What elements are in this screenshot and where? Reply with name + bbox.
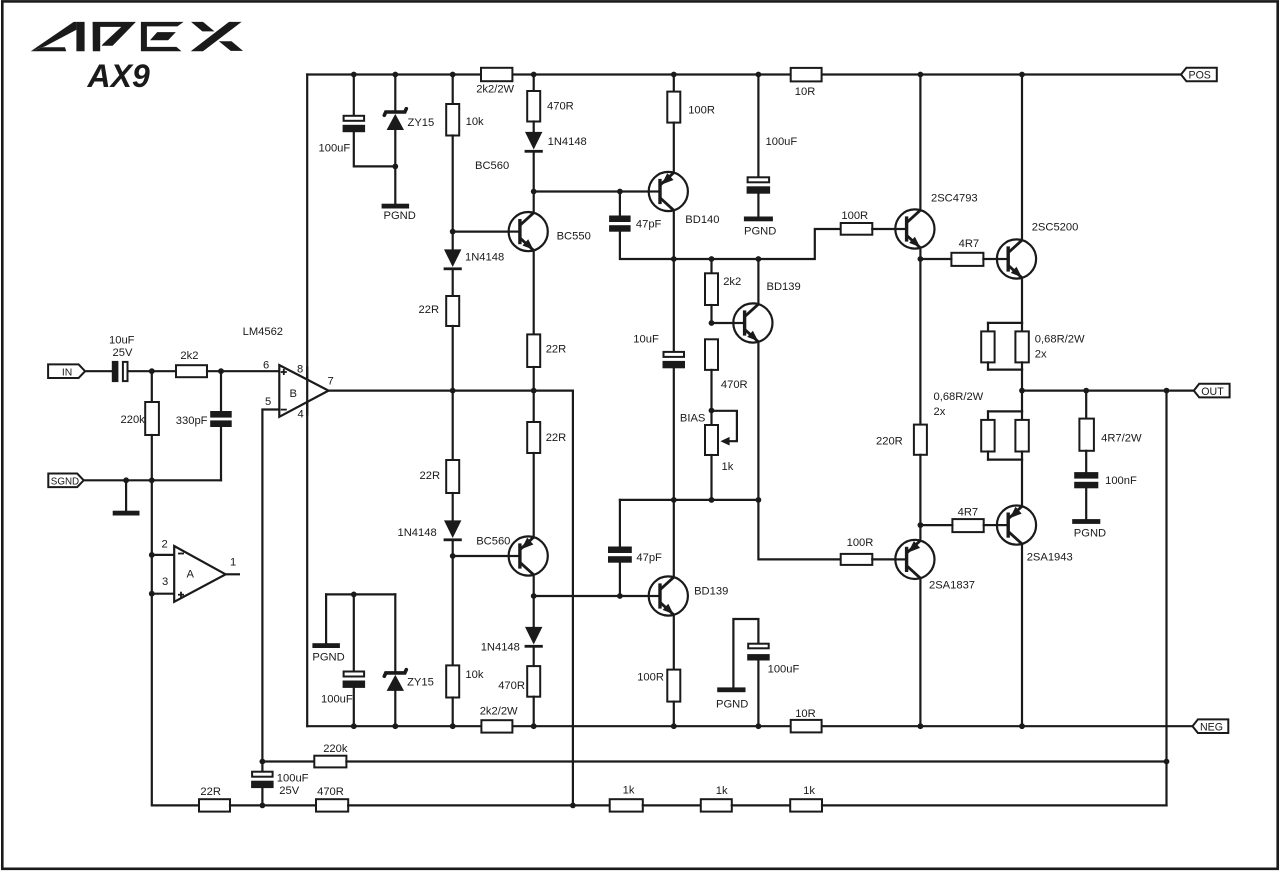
wire 100uF top stem bottom supply <box>353 594 355 670</box>
wire lower emitter resistor top bus <box>988 410 1022 412</box>
resistor 2k2/2W bottom <box>481 720 512 732</box>
junction BD139 emitter at lower row <box>756 497 762 503</box>
wire input column down to feedback row <box>152 480 199 805</box>
svg-text:10uF: 10uF <box>633 334 659 346</box>
wire lower top stub right <box>1021 411 1023 420</box>
wire 47pF lower top stem <box>619 500 621 547</box>
svg-text:BD139: BD139 <box>767 281 801 293</box>
svg-text:PGND: PGND <box>312 651 344 663</box>
resistor 100R upper middle <box>667 92 680 123</box>
wire 470R to NEG rail <box>533 697 535 727</box>
symbol minus op-amp A <box>178 553 184 555</box>
wire 22R to op-amp output row <box>452 326 454 391</box>
diode 1N4148 lower left <box>444 520 462 541</box>
ground PGND top supply <box>382 204 410 209</box>
wire zener anode to PGND <box>394 130 396 204</box>
wire 2SC5200 emitter to emitter resistors <box>1021 278 1023 323</box>
svg-text:2k2: 2k2 <box>180 350 198 362</box>
transistor 2SC5200 output <box>997 239 1036 278</box>
wire 470R to trimmer <box>710 370 712 425</box>
resistor 22R upper left <box>446 296 459 326</box>
wire PGND stem bottom supply <box>325 594 327 643</box>
svg-text:100R: 100R <box>688 104 715 116</box>
wire OUT to 4R7/2W <box>1085 391 1087 419</box>
junction pin5 column at 220k row <box>260 759 266 765</box>
junction 2SA1837 at NEG rail <box>918 723 924 729</box>
wire shunt row a <box>230 804 316 806</box>
connector IN <box>48 364 85 378</box>
transistor BD139 bias upper <box>733 303 772 342</box>
resistor 22R shunt <box>199 799 230 811</box>
wire op-amp B output to drivers and feedback <box>329 391 573 806</box>
svg-text:5: 5 <box>265 396 271 408</box>
svg-text:LM4562: LM4562 <box>243 326 283 338</box>
junction 2SA1837 emitter node <box>918 522 924 528</box>
wire 47pF upper bottom stem and row <box>620 229 841 259</box>
wire BC560 base node to 10k bottom <box>452 556 454 665</box>
svg-text:100uF: 100uF <box>766 136 798 148</box>
wire output row to 22R lower middle <box>533 391 535 422</box>
resistor 220k feedback <box>314 756 346 768</box>
svg-text:4R7/2W: 4R7/2W <box>1101 433 1142 445</box>
svg-text:220k: 220k <box>121 414 146 426</box>
wire op-amp A pin2 lead <box>152 554 174 556</box>
wire BD139 upper emitter down <box>757 342 759 500</box>
resistor 2k2 bias <box>705 273 718 305</box>
svg-text:2SC5200: 2SC5200 <box>1032 222 1079 234</box>
wire upper emitter resistor bottom bus <box>988 369 1022 371</box>
junction op-amp A pin3 tap <box>149 591 155 597</box>
wire NEG rail right segment <box>822 725 1193 727</box>
junction decoupling cap at POS rail <box>756 72 762 78</box>
svg-text:47pF: 47pF <box>636 218 662 230</box>
junction 2k2 at BD139 base <box>709 320 715 326</box>
wire rail to 10k <box>452 75 454 105</box>
symbol plus op-amp B <box>281 369 287 375</box>
wire 100R top stem <box>673 75 675 92</box>
junction BC560 collector node <box>531 593 537 599</box>
wire cap hook to PGND <box>733 619 758 687</box>
wire cap to PGND <box>757 194 759 217</box>
svg-text:100R: 100R <box>847 537 874 549</box>
wire 22R to output row <box>533 367 535 391</box>
wire BD139 upper base row <box>712 322 734 324</box>
capacitor 100nF zobel <box>1074 472 1098 488</box>
capacitor 100uF negative supply <box>343 672 366 688</box>
junction 470R column at NEG rail <box>531 723 537 729</box>
resistor 220R interdriver <box>914 425 927 455</box>
svg-text:PGND: PGND <box>384 210 416 222</box>
capacitor 10uF VAS <box>663 352 686 368</box>
wire 100R to 2SA1837 base <box>872 558 895 560</box>
wire shunt row b <box>348 804 610 806</box>
svg-text:NEG: NEG <box>1200 721 1223 733</box>
wire 2k2 to op-amp pin6 <box>207 370 279 372</box>
resistor 100R lower middle <box>667 670 680 702</box>
junction BD140 base node <box>531 189 537 195</box>
wire diode to BC560 base node <box>452 542 454 556</box>
wire op-amp A pin3 lead <box>152 593 174 595</box>
wire IN to coupling cap <box>85 370 112 372</box>
wire 220k stem top <box>151 371 153 402</box>
wire node to diode lower middle <box>533 596 535 627</box>
resistor 1k series first <box>610 799 643 811</box>
resistor 4R7 upper <box>951 253 983 266</box>
resistor 22R lower middle <box>527 422 540 453</box>
svg-text:100nF: 100nF <box>1105 475 1137 487</box>
junction 2SA1943 at NEG rail <box>1019 723 1025 729</box>
svg-text:22R: 22R <box>546 344 567 356</box>
wire POS rail right segment <box>822 73 1181 75</box>
junction 2SC5200 at POS rail <box>1019 72 1025 78</box>
logo letter P <box>93 22 136 51</box>
svg-text:1N4148: 1N4148 <box>481 641 520 653</box>
wire 2SC4793 collector to rail <box>919 75 921 211</box>
wire emitter node to 4R7 lower <box>920 524 952 526</box>
transistor BC550 input <box>509 212 548 251</box>
junction input node <box>149 368 155 374</box>
resistor 4R7/2W zobel <box>1079 419 1094 451</box>
svg-text:BC550: BC550 <box>557 231 591 243</box>
wire 330pF stem top <box>220 371 222 411</box>
wire 100R to NEG rail <box>673 702 675 727</box>
svg-text:1k: 1k <box>803 785 815 797</box>
wire 10k to BC550 base node and diode <box>452 136 454 250</box>
junction 10k column at NEG rail <box>450 723 456 729</box>
capacitor 100uF positive supply <box>343 116 366 132</box>
capacitor 330pF <box>210 411 232 427</box>
wire lower VAS row <box>620 499 759 501</box>
wire lower row to 2SA1837 base <box>758 500 840 560</box>
wire 10k bottom to NEG rail <box>452 698 454 727</box>
wire shunt row e <box>822 804 1167 806</box>
wire zener ZY15 top stem <box>394 75 396 111</box>
wire zener top stem bottom supply <box>394 594 396 671</box>
resistor 470R lower middle <box>527 666 540 697</box>
svg-text:2SA1837: 2SA1837 <box>929 580 975 592</box>
resistor 0.68R/2W lower b <box>1015 420 1028 452</box>
junction 100R column at NEG rail <box>671 723 677 729</box>
svg-text:25V: 25V <box>113 347 133 359</box>
wire output row to 22R lower left <box>452 391 454 460</box>
junction 100uF at POS node <box>351 72 357 78</box>
wire POS rail left segment <box>307 73 481 75</box>
wire upper bottom stub left <box>987 362 989 369</box>
connector OUT <box>1194 384 1230 398</box>
svg-text:6: 6 <box>263 360 269 372</box>
wire 2SC5200 collector to rail <box>1021 75 1023 241</box>
junction 47pF top tap <box>617 189 623 195</box>
wire 330pF stem bottom <box>220 427 222 480</box>
resistor 4R7 lower <box>952 519 983 532</box>
capacitor 10uF 25V input bipolar <box>112 361 128 382</box>
wire 220k to SGND row <box>151 435 153 480</box>
svg-text:IN: IN <box>62 368 72 379</box>
svg-text:100uF: 100uF <box>768 663 800 675</box>
svg-text:B: B <box>290 388 297 400</box>
capacitor 100uF rail decoupling bottom <box>747 644 770 661</box>
svg-text:330pF: 330pF <box>176 415 208 427</box>
logo letter X <box>191 22 243 51</box>
wire zener to NEG node <box>394 691 396 726</box>
transistor 2SA1837 driver <box>895 540 934 579</box>
resistor 10k bottom <box>446 665 459 697</box>
resistor 100R driver lower <box>841 554 873 565</box>
ground signal ground bar <box>113 511 140 516</box>
wire OUT row <box>1022 390 1194 392</box>
svg-text:22R: 22R <box>200 786 221 798</box>
resistor 1k series second <box>701 799 732 811</box>
ground PGND decoupling bottom <box>717 687 745 692</box>
wire signal ground stem <box>125 480 127 510</box>
zener diode ZY15 positive regulator <box>384 109 406 130</box>
capacitor 47pF lower <box>608 547 632 563</box>
wire diode to BD140 base node <box>533 153 535 191</box>
svg-text:10k: 10k <box>465 669 483 681</box>
wire POS rail middle segment <box>512 73 790 75</box>
wire shunt row d <box>732 804 790 806</box>
svg-text:2x: 2x <box>1035 348 1047 360</box>
resistor 2k2/2W top <box>481 68 512 81</box>
svg-text:A: A <box>187 568 195 580</box>
svg-text:220k: 220k <box>323 743 348 755</box>
svg-text:SGND: SGND <box>51 477 79 488</box>
wire op-amp A output stub pin1 <box>226 573 239 575</box>
wire bus to 2SA1943 emitter <box>1021 460 1023 507</box>
svg-text:10R: 10R <box>795 86 816 98</box>
svg-text:100uF: 100uF <box>319 143 351 155</box>
wire 4R7/2W to 100nF <box>1085 451 1087 472</box>
resistor 220k input <box>145 402 159 435</box>
wire 47pF upper top stem <box>619 192 621 216</box>
svg-text:10k: 10k <box>466 116 484 128</box>
trimmer 1k bias <box>705 425 718 455</box>
svg-text:25V: 25V <box>279 785 299 797</box>
svg-text:AX9: AX9 <box>87 58 150 94</box>
wire feedback cap to shunt row <box>261 788 263 805</box>
resistor 100R driver upper <box>841 223 873 235</box>
ground PGND decoupling top <box>744 217 773 222</box>
wire upper bus stub left <box>987 323 989 332</box>
wire BD140 collector to row <box>673 210 675 259</box>
svg-text:7: 7 <box>328 375 334 387</box>
svg-text:220R: 220R <box>876 436 903 448</box>
junction 10k column at POS rail <box>450 72 456 78</box>
wire upper emitter resistor top bus <box>988 322 1022 324</box>
ground PGND zobel <box>1072 519 1100 524</box>
svg-text:100uF: 100uF <box>277 772 309 784</box>
resistor 22R lower left <box>446 460 459 493</box>
junction output node <box>1019 388 1025 394</box>
wire BC550 emitter to 22R <box>533 250 535 334</box>
wire 2k2 stem top <box>710 259 712 273</box>
junction 2k2 output node <box>218 368 224 374</box>
svg-text:22R: 22R <box>420 470 441 482</box>
svg-text:PGND: PGND <box>744 226 776 238</box>
junction op-amp A pin2 tap <box>149 552 155 558</box>
logo letter A <box>31 22 85 51</box>
logo letter E <box>141 22 184 51</box>
wire 4R7 to 2SC5200 base <box>983 258 997 260</box>
wire 10uF stem bottom <box>673 368 675 500</box>
junction feedback 220k row <box>1164 759 1170 765</box>
resistor 10R bottom <box>791 720 822 733</box>
junction 100uF at NEG node <box>351 723 357 729</box>
svg-text:2x: 2x <box>934 406 946 418</box>
svg-text:0,68R/2W: 0,68R/2W <box>934 391 984 403</box>
wire trimmer wiper arrow <box>712 411 737 446</box>
wire emitter node to 4R7 <box>920 258 951 260</box>
wire minus supply PGND line <box>326 593 395 595</box>
op-amp LM4562 section B <box>279 365 328 417</box>
wire node to BC550 collector <box>533 192 535 214</box>
symbol minus op-amp B <box>281 409 287 411</box>
junction shunt row at op-amp output column <box>570 803 576 809</box>
wire upper bottom stub right <box>1021 362 1023 369</box>
diode 1N4148 upper middle <box>525 132 543 153</box>
svg-text:2: 2 <box>162 539 168 551</box>
wire 22R to diode lower left <box>452 493 454 520</box>
junction 2SC4793 at POS rail <box>918 72 924 78</box>
junction 10uF at lower row <box>671 497 677 503</box>
wire 10uF stem top <box>673 259 675 351</box>
wire 100uF positive supply cap top stem <box>353 75 355 115</box>
svg-text:4: 4 <box>298 409 304 421</box>
wire shunt row c <box>643 804 701 806</box>
resistor 470R bias <box>705 339 718 370</box>
wire BC560 collector down <box>533 575 535 596</box>
resistor 0.68R/2W upper a <box>981 331 994 362</box>
svg-text:22R: 22R <box>419 304 440 316</box>
junction BC560 base node <box>450 553 456 559</box>
wire SGND row <box>84 479 221 481</box>
junction trimmer at lower row <box>709 497 715 503</box>
svg-text:ZY15: ZY15 <box>407 677 434 689</box>
svg-text:BD140: BD140 <box>685 214 719 226</box>
junction shunt row at cap <box>260 803 266 809</box>
svg-text:ZY15: ZY15 <box>408 117 435 129</box>
junction 2SC4793 emitter node <box>918 256 924 262</box>
connector SGND <box>48 474 83 488</box>
capacitor 100uF 25V feedback <box>251 772 274 788</box>
wire lower bottom stub right <box>1021 452 1023 460</box>
junction trimmer wiper tap <box>709 408 715 414</box>
wire OUT node to lower resistor bus <box>1021 391 1023 412</box>
svg-text:4R7: 4R7 <box>959 238 980 250</box>
junction 100uF at PGND line <box>351 592 357 598</box>
wire op-amp supply column pin8 to pin4 <box>306 75 308 727</box>
svg-text:2k2/2W: 2k2/2W <box>480 706 518 718</box>
resistor 22R upper middle <box>527 334 540 367</box>
junction 470R column at output row <box>531 388 537 394</box>
svg-text:3: 3 <box>162 576 168 588</box>
wire emitter node to 220R <box>919 259 921 425</box>
resistor 470R shunt <box>316 799 348 811</box>
wire rail to 470R top <box>533 75 535 92</box>
transistor BD140 VAS <box>649 172 688 211</box>
svg-text:1k: 1k <box>623 785 635 797</box>
connector NEG <box>1193 719 1229 733</box>
junction BD139 collector at row <box>756 256 762 262</box>
wire 470R to diode <box>533 122 535 132</box>
wire 100R to BD140 emitter <box>673 123 675 173</box>
junction decoupling cap at NEG rail <box>756 723 762 729</box>
wire 220k row left <box>262 760 314 762</box>
svg-text:2SA1943: 2SA1943 <box>1027 552 1073 564</box>
svg-text:PGND: PGND <box>716 699 748 711</box>
wire 4R7 to 2SA1943 base <box>984 524 997 526</box>
capacitor 100uF rail decoupling top <box>747 177 771 193</box>
svg-text:4R7: 4R7 <box>958 506 979 518</box>
wire BD139 lower base row <box>534 595 649 597</box>
svg-text:1N4148: 1N4148 <box>398 527 437 539</box>
wire 2SA1837 collector to NEG rail <box>919 578 921 726</box>
wire bottom bus to OUT node <box>1021 370 1023 391</box>
svg-text:2k2/2W: 2k2/2W <box>476 83 514 95</box>
symbol plus op-amp A <box>178 592 184 598</box>
junction feedback at OUT row <box>1164 388 1170 394</box>
resistor 10R top <box>791 68 822 82</box>
transistor 2SC4793 driver <box>895 209 934 248</box>
svg-text:47pF: 47pF <box>636 552 662 564</box>
wire 2k2 to base row <box>710 305 712 323</box>
junction 47pF at BD139 base row <box>617 593 623 599</box>
wire feedback vertical from OUT <box>1165 391 1167 806</box>
junction ZY15 at POS node <box>392 72 398 78</box>
wire BC560 base lead <box>453 555 509 557</box>
junction zener anode and 100uF <box>392 164 398 170</box>
wire diode to 470R lower <box>533 648 535 666</box>
junction 2k2 at upper row <box>709 256 715 262</box>
svg-text:470R: 470R <box>498 680 525 692</box>
svg-text:10uF: 10uF <box>109 334 135 346</box>
connector POS <box>1181 68 1217 82</box>
wire node to 2SA1837 emitter <box>919 525 921 541</box>
resistor 10k top <box>446 104 459 136</box>
wire 47pF lower bottom stem <box>619 563 621 596</box>
svg-text:100R: 100R <box>637 672 664 684</box>
wire 100nF to PGND <box>1085 488 1087 519</box>
transistor BD139 lower VAS <box>649 576 688 615</box>
svg-text:470R: 470R <box>547 101 574 113</box>
svg-text:BIAS: BIAS <box>680 413 706 425</box>
ground PGND bottom supply <box>312 643 340 648</box>
svg-text:100uF: 100uF <box>321 694 353 706</box>
wire BD139 upper collector <box>757 259 759 304</box>
svg-text:2k2: 2k2 <box>723 276 741 288</box>
wire 2SC4793 emitter to node <box>919 248 921 259</box>
svg-text:1N4148: 1N4148 <box>465 252 504 264</box>
capacitor 47pF upper <box>609 216 631 232</box>
wire pin5 feedback column <box>262 410 279 771</box>
op-amp LM4562 section A <box>174 546 225 602</box>
svg-text:1k: 1k <box>716 785 728 797</box>
svg-text:BC560: BC560 <box>475 160 509 172</box>
wire lower emitter resistor bottom bus <box>988 459 1022 461</box>
wire 100uF bottom to zener anode node <box>354 132 396 166</box>
wire diode to 22R <box>452 271 454 297</box>
transistor BC560 input <box>509 536 548 575</box>
resistor 0.68R/2W lower a <box>981 420 994 452</box>
wire trimmer bottom to lower row <box>710 455 712 500</box>
svg-text:BC560: BC560 <box>476 536 510 548</box>
resistor 0.68R/2W upper b <box>1015 331 1028 362</box>
svg-text:1: 1 <box>230 556 236 568</box>
wire lower bottom stub left <box>987 452 989 460</box>
svg-text:BD139: BD139 <box>694 585 728 597</box>
junction BD140 collector node <box>671 256 677 262</box>
svg-text:470R: 470R <box>317 786 344 798</box>
